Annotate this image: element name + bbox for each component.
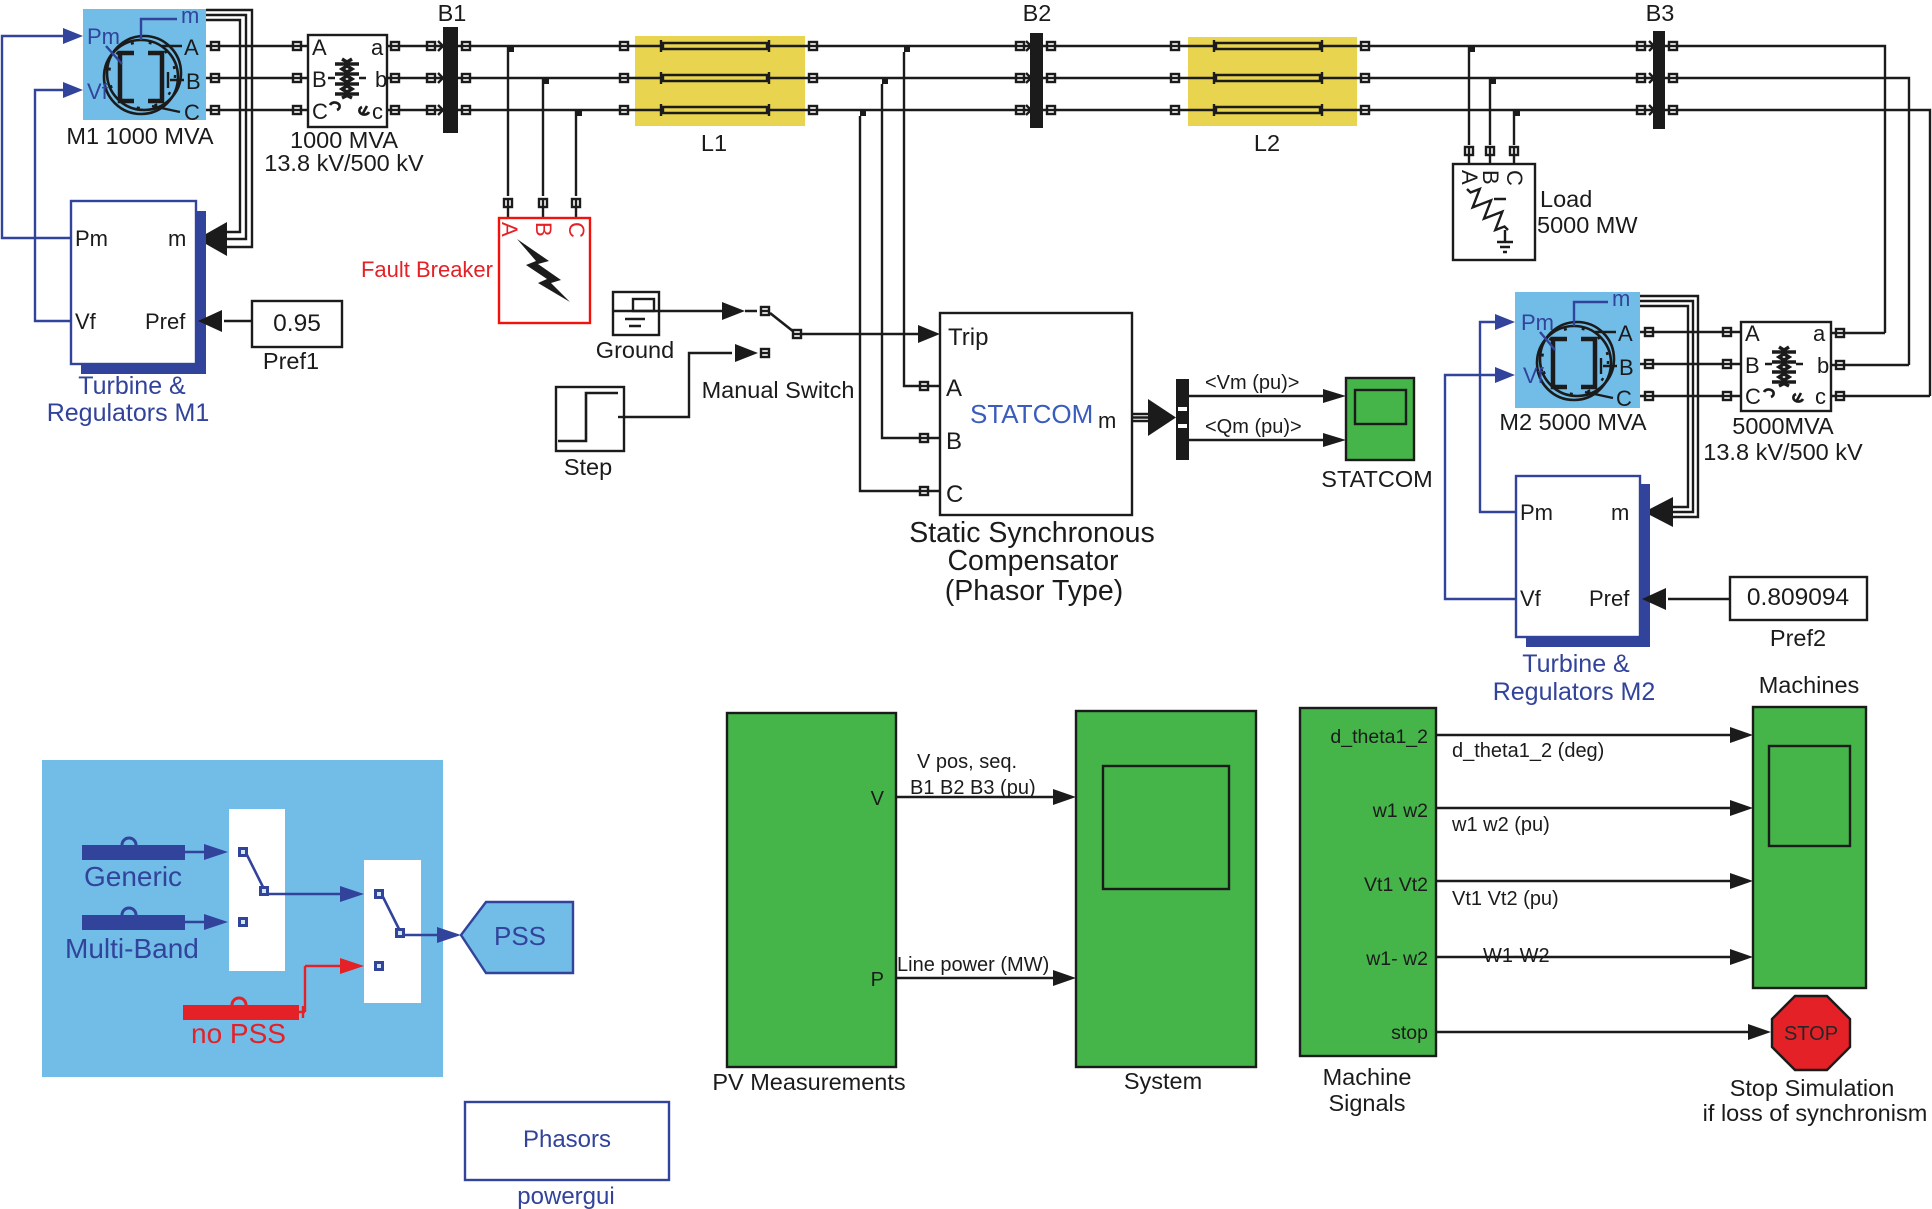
svg-text:P: P: [871, 969, 884, 991]
svg-text:Machines: Machines: [1759, 672, 1860, 698]
wire phase B M1 to TR1: [206, 77, 308, 79]
wire phase C L2 to B3: [1357, 109, 1653, 111]
svg-text:B: B: [1745, 353, 1760, 378]
block Ground: [613, 292, 659, 335]
block PV Measurements: [727, 713, 896, 1067]
wire phase C B1 to L1: [458, 109, 635, 111]
wire Pm feedback (T&R M2 to M2): [1480, 322, 1516, 512]
svg-text:13.8 kV/500 kV: 13.8 kV/500 kV: [264, 150, 424, 176]
wire Generic to switch1: [185, 851, 204, 853]
svg-text:Step: Step: [564, 454, 612, 480]
switch housing 1: [229, 809, 285, 971]
svg-text:Pm: Pm: [87, 24, 120, 49]
wire drop C to Load: [1513, 110, 1515, 145]
svg-text:V pos, seq.: V pos, seq.: [917, 751, 1017, 773]
wire phase B L2 to B3: [1357, 77, 1653, 79]
block Machine Signals: [1300, 708, 1436, 1056]
machine M1 1000 MVA: [83, 3, 206, 125]
wire V to System: [896, 796, 1053, 798]
svg-text:M2 5000 MVA: M2 5000 MVA: [1499, 409, 1646, 435]
wire phase A L1 to B2: [805, 45, 1030, 47]
constant Pref1 (0.95): [252, 301, 342, 347]
svg-text:B1 B2 B3 (pu): B1 B2 B3 (pu): [910, 777, 1036, 799]
svg-text:Generic: Generic: [84, 861, 182, 892]
wire drop B vertical into STATCOM B: [882, 84, 940, 438]
bus B3: [1653, 31, 1665, 129]
svg-text:B2: B2: [1023, 0, 1052, 26]
svg-text:Pref: Pref: [1589, 586, 1630, 611]
svg-text:if loss of synchronism: if loss of synchronism: [1703, 1100, 1928, 1126]
block Fault Breaker: [497, 218, 590, 323]
junction drop B to STATCOM: [882, 79, 888, 84]
svg-text:C: C: [184, 100, 200, 125]
block Step: [556, 387, 624, 451]
svg-text:b: b: [1817, 353, 1829, 378]
svg-text:Ground: Ground: [596, 337, 674, 363]
subsystem Turbine & Regulators M1: [71, 201, 206, 374]
svg-text:B1: B1: [438, 0, 467, 26]
wire phase C M1 to TR1: [206, 109, 308, 111]
wire drop B to Load: [1489, 78, 1491, 145]
svg-text:STOP: STOP: [1784, 1023, 1838, 1045]
scope Machines: [1753, 707, 1866, 988]
wire Vt1 Vt2 to Machines: [1436, 880, 1730, 882]
wire Vf feedback (T&R M1 to M1): [35, 90, 71, 321]
scope System: [1076, 711, 1256, 1067]
wire phase A B1 to L1: [458, 45, 635, 47]
svg-text:<Qm (pu)>: <Qm (pu)>: [1205, 416, 1302, 438]
wire Step to Manual Switch: [624, 353, 732, 417]
svg-text:w1- w2: w1- w2: [1365, 948, 1428, 970]
svg-text:a: a: [1813, 321, 1826, 346]
svg-text:B: B: [531, 222, 556, 237]
wire drop A to fault breaker: [507, 46, 509, 196]
wire Vf feedback (T&R M2 to M2): [1445, 375, 1516, 599]
svg-text:a: a: [371, 35, 384, 60]
wire phase B B2 to L2: [1043, 77, 1188, 79]
svg-text:d_theta1_2: d_theta1_2: [1330, 726, 1428, 748]
machine M2 5000 MVA: [1515, 286, 1640, 411]
bus B1: [443, 27, 458, 133]
svg-text:Machine: Machine: [1323, 1064, 1412, 1090]
svg-text:A: A: [184, 35, 199, 60]
block powergui (Phasors): [465, 1102, 669, 1180]
subsystem Turbine & Regulators M2: [1516, 476, 1650, 647]
junction drop C to STATCOM: [860, 111, 866, 116]
svg-text:b: b: [375, 67, 387, 92]
svg-text:Pref1: Pref1: [263, 348, 319, 374]
svg-text:Pm: Pm: [1521, 310, 1554, 335]
svg-text:Fault Breaker: Fault Breaker: [361, 257, 493, 282]
transformer 1000 MVA 13.8kV/500kV: [308, 35, 387, 127]
svg-text:Signals: Signals: [1328, 1090, 1405, 1116]
wire drop C to fault breaker: [575, 110, 577, 196]
svg-text:Trip: Trip: [948, 324, 988, 351]
svg-text:<Vm (pu)>: <Vm (pu)>: [1205, 372, 1299, 394]
svg-text:0.809094: 0.809094: [1747, 584, 1849, 611]
wire m bus M2 to T&R M2: [1640, 296, 1698, 517]
arrow Pm into M2: [1495, 314, 1515, 330]
svg-text:PSS: PSS: [494, 921, 546, 951]
wire phase A B3 to TR2 side: [1665, 46, 1885, 333]
arrow Vf into M2: [1495, 367, 1515, 383]
wire no PSS to switch2: [299, 966, 340, 1018]
svg-text:w1 w2 (pu): w1 w2 (pu): [1451, 814, 1550, 836]
wire Vm to scope: [1189, 395, 1336, 397]
svg-text:Pm: Pm: [75, 226, 108, 251]
svg-text:Regulators M1: Regulators M1: [47, 399, 210, 427]
block STATCOM (Static Synchronous Compensator): [940, 313, 1132, 515]
line L1: [635, 36, 805, 126]
wire b TR2 to right riser: [1831, 364, 1909, 366]
source bar no PSS: [183, 1005, 299, 1020]
svg-text:B: B: [186, 69, 201, 94]
wire Pref1 to T&R M1: [224, 320, 252, 322]
wire Qm to scope: [1189, 439, 1336, 441]
wire phase B TR1 to B1: [387, 77, 442, 79]
wire c TR2 to right riser: [1831, 395, 1930, 397]
svg-text:c: c: [1815, 384, 1826, 409]
svg-text:M1 1000 MVA: M1 1000 MVA: [66, 123, 213, 149]
svg-text:B3: B3: [1646, 0, 1675, 26]
svg-text:m: m: [181, 3, 199, 28]
wire phase C B3 to TR2 side: [1665, 110, 1930, 396]
svg-text:5000 MW: 5000 MW: [1537, 212, 1638, 238]
block STOP (Stop Simulation): [1772, 996, 1850, 1070]
svg-text:Pm: Pm: [1520, 500, 1553, 525]
wire Pref2 to T&R M2: [1668, 598, 1730, 600]
wire a TR2 to right riser: [1831, 332, 1885, 334]
svg-text:0.95: 0.95: [273, 310, 321, 337]
wire drop A vertical into STATCOM A: [904, 52, 940, 386]
svg-text:m: m: [1098, 408, 1116, 433]
svg-text:Vf: Vf: [75, 309, 97, 334]
wire Pm feedback (T&R M1 to M1): [2, 36, 71, 238]
transformer 5000MVA 13.8kV/500kV: [1741, 321, 1831, 411]
svg-text:Vt1 Vt2 (pu): Vt1 Vt2 (pu): [1452, 888, 1559, 910]
svg-text:C: C: [1616, 386, 1632, 411]
wire phase B B3 to TR2 side: [1665, 78, 1909, 365]
wire phase B L1 to B2: [805, 77, 1030, 79]
manual switch lever and output: [770, 313, 794, 332]
wire P to System: [896, 977, 1053, 979]
svg-text:A: A: [946, 375, 962, 402]
wire switch1 to switch2: [269, 893, 340, 895]
wire phase B M2 to TR2: [1640, 363, 1741, 365]
svg-text:Multi-Band: Multi-Band: [65, 933, 199, 964]
svg-text:Vt1 Vt2: Vt1 Vt2: [1364, 874, 1428, 896]
wire phase A M2 to TR2: [1640, 331, 1741, 333]
svg-text:W1-W2: W1-W2: [1483, 945, 1550, 967]
svg-text:stop: stop: [1391, 1022, 1428, 1044]
source bar Generic: [82, 845, 185, 860]
wire m bus M1 to T&R M1 (3-line measurement bus): [206, 10, 252, 247]
svg-text:no PSS: no PSS: [191, 1018, 286, 1049]
svg-text:A: A: [497, 222, 522, 237]
svg-text:C: C: [312, 99, 328, 124]
wire phase A M1 to TR1: [206, 45, 308, 47]
svg-text:(Phasor Type): (Phasor Type): [945, 575, 1123, 607]
svg-text:m: m: [1612, 286, 1630, 311]
svg-text:Stop Simulation: Stop Simulation: [1730, 1075, 1895, 1101]
constant Pref2 (0.809094): [1730, 577, 1867, 620]
svg-text:Regulators M2: Regulators M2: [1493, 678, 1656, 706]
wire stop to STOP: [1436, 1031, 1748, 1033]
wire phase B B1 to L1: [458, 77, 635, 79]
svg-text:Pref2: Pref2: [1770, 625, 1826, 651]
wire drop B to fault breaker: [542, 78, 544, 196]
svg-text:A: A: [312, 35, 327, 60]
svg-text:w1 w2: w1 w2: [1372, 800, 1428, 822]
wire STATCOM m bus to demux: [1132, 414, 1148, 421]
svg-text:Vf: Vf: [1520, 586, 1542, 611]
svg-text:Manual Switch: Manual Switch: [702, 377, 855, 403]
svg-text:B: B: [1619, 355, 1634, 380]
svg-text:m: m: [168, 226, 186, 251]
wire Ground to Manual Switch: [659, 310, 757, 312]
svg-text:5000MVA: 5000MVA: [1732, 413, 1834, 439]
svg-text:Line power (MW): Line power (MW): [897, 954, 1049, 976]
bus B2: [1030, 33, 1043, 128]
wire phase A TR1 to B1: [387, 45, 442, 47]
svg-text:powergui: powergui: [517, 1183, 614, 1209]
svg-text:13.8 kV/500 kV: 13.8 kV/500 kV: [1703, 439, 1863, 465]
wire phase A B2 to L2: [1043, 45, 1188, 47]
svg-text:STATCOM: STATCOM: [970, 399, 1093, 429]
svg-text:c: c: [372, 99, 383, 124]
svg-text:PV Measurements: PV Measurements: [712, 1069, 905, 1095]
svg-text:m: m: [1611, 500, 1629, 525]
svg-text:Pref: Pref: [145, 309, 186, 334]
wire Multi-Band to switch1: [185, 921, 204, 923]
svg-text:V: V: [871, 788, 885, 810]
wire d_theta1_2 to Machines: [1436, 734, 1730, 736]
wire drop A to Load: [1468, 46, 1470, 145]
wire w1 w2 to Machines: [1436, 807, 1730, 809]
scope STATCOM: [1346, 378, 1414, 460]
svg-text:C: C: [564, 222, 589, 238]
svg-text:C: C: [1745, 384, 1761, 409]
wire phase A L2 to B3: [1357, 45, 1653, 47]
source bar Multi-Band: [82, 915, 185, 930]
switch housing 2: [364, 860, 421, 1003]
output tag PSS: [461, 902, 573, 973]
switch2 lever: [383, 897, 400, 931]
demux: [1176, 379, 1189, 460]
svg-text:B: B: [312, 67, 327, 92]
PSS selection panel: [42, 760, 443, 1077]
line L2: [1188, 37, 1357, 126]
wire drop C vertical into STATCOM C: [860, 116, 940, 491]
wire phase C TR1 to B1: [387, 109, 442, 111]
svg-text:C: C: [1502, 170, 1527, 186]
svg-text:B: B: [1478, 170, 1503, 185]
wire phase C M2 to TR2: [1640, 395, 1741, 397]
wire w1-w2 to Machines: [1436, 956, 1730, 958]
svg-text:Turbine &: Turbine &: [1522, 650, 1630, 678]
svg-text:C: C: [946, 481, 963, 508]
block Load 5000 MW: [1453, 164, 1535, 260]
svg-text:Phasors: Phasors: [523, 1126, 611, 1153]
svg-text:Vf: Vf: [87, 79, 109, 104]
svg-text:L2: L2: [1254, 130, 1280, 156]
svg-text:STATCOM: STATCOM: [1321, 466, 1432, 492]
junction drop A to STATCOM: [904, 47, 910, 52]
wire switch2 to PSS tag: [405, 934, 437, 936]
svg-text:d_theta1_2 (deg): d_theta1_2 (deg): [1452, 740, 1604, 762]
switch1 lever: [247, 855, 264, 889]
svg-text:L1: L1: [701, 130, 727, 156]
svg-text:System: System: [1124, 1068, 1202, 1094]
svg-text:Compensator: Compensator: [947, 545, 1119, 577]
svg-text:B: B: [946, 428, 962, 455]
svg-text:A: A: [1745, 321, 1760, 346]
wire phase C B2 to L2: [1043, 109, 1188, 111]
svg-text:A: A: [1618, 321, 1633, 346]
wire phase C L1 to B2: [805, 109, 1030, 111]
svg-text:Load: Load: [1540, 186, 1592, 212]
wire Manual Switch to STATCOM Trip: [801, 333, 926, 335]
svg-text:Turbine &: Turbine &: [78, 372, 186, 400]
svg-text:Vf: Vf: [1523, 363, 1545, 388]
